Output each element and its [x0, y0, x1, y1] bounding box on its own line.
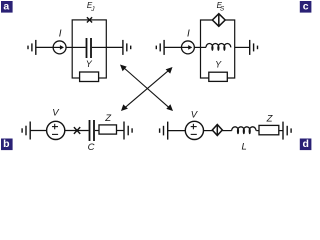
svg-text:Y: Y	[86, 59, 93, 69]
svg-text:b: b	[3, 138, 9, 150]
svg-text:c: c	[303, 1, 309, 13]
svg-text:Y: Y	[215, 59, 222, 69]
svg-text:Z: Z	[104, 113, 112, 124]
svg-text:a: a	[3, 1, 9, 13]
svg-text:d: d	[302, 138, 308, 150]
svg-text:C: C	[88, 142, 95, 152]
svg-text:L: L	[242, 141, 247, 152]
svg-text:I: I	[59, 28, 62, 39]
svg-text:S: S	[220, 5, 225, 12]
svg-text:J: J	[90, 6, 95, 13]
svg-text:Z: Z	[266, 114, 274, 125]
svg-text:I: I	[187, 28, 190, 39]
